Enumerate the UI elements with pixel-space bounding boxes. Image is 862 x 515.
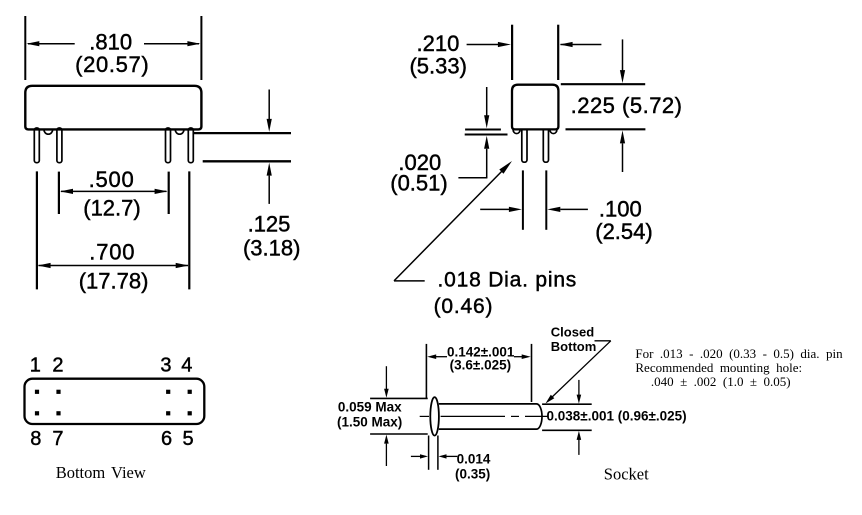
svg-text:3: 3 <box>160 355 171 377</box>
extension line below pin 3 (inner right) <box>168 172 170 214</box>
closed-bottom leader arrow <box>595 340 611 342</box>
svg-text:.040 ± .002 (1.0 ± 0.05): .040 ± .002 (1.0 ± 0.05) <box>651 374 791 389</box>
extension line below pin 2 (inner left) <box>58 172 60 214</box>
socket barrel bottom line <box>439 428 537 430</box>
svg-text:1: 1 <box>30 355 41 377</box>
extension line left of 0.014 <box>428 436 430 470</box>
svg-text:.100: .100 <box>599 197 642 222</box>
side view pin 4 <box>188 128 193 163</box>
end view pin left <box>522 128 527 162</box>
side view pin 1 <box>34 128 39 163</box>
svg-text:Socket: Socket <box>604 465 649 484</box>
dimension 0.059: upper arrow <box>385 366 387 390</box>
svg-text:.018 Dia. pins: .018 Dia. pins <box>438 269 578 292</box>
dimension .225: upper arrow <box>622 39 624 70</box>
extension line below right pin (.100) <box>545 170 547 229</box>
svg-text:2: 2 <box>52 355 63 377</box>
dimension 0.038: lower arrow <box>577 431 582 440</box>
svg-text:Recommended mounting hole:: Recommended mounting hole: <box>635 360 802 375</box>
extension line bottom of 0.038 <box>542 429 592 431</box>
dimension .700: line with outward arrows <box>39 265 189 267</box>
socket centerline <box>420 415 429 417</box>
svg-text:.225 (5.72): .225 (5.72) <box>571 93 683 118</box>
end view: extension line left of .210 <box>511 25 513 80</box>
standoff bump right (side view) <box>175 129 184 134</box>
standoff bump left (side view) <box>44 129 53 134</box>
svg-text:.810: .810 <box>89 30 132 55</box>
svg-text:0.059 Max: 0.059 Max <box>338 400 402 415</box>
seating plane line (lower) <box>203 160 291 162</box>
extension line below left pin (.100) <box>522 170 524 229</box>
side view pin 3 <box>166 128 171 163</box>
svg-text:0.014: 0.014 <box>457 452 491 467</box>
dimension .225: lower arrow <box>620 130 625 143</box>
dimension .125: lower arrow <box>267 163 272 176</box>
bottom view body outline <box>25 379 205 424</box>
extension line right of 0.014 <box>437 436 439 470</box>
socket barrel top line <box>439 403 537 405</box>
svg-text:(3.6±.025): (3.6±.025) <box>450 358 511 373</box>
dimension .020: leader line <box>458 177 487 179</box>
svg-text:5: 5 <box>182 428 193 450</box>
dimension .810: right arrow <box>144 43 199 45</box>
dimension 0.142: left arrow <box>427 354 436 359</box>
dimension 0.142: right arrow <box>514 356 522 358</box>
svg-text:(3.18): (3.18) <box>243 236 300 261</box>
dimension .020: upper arrow <box>486 87 488 116</box>
dimension .100: left arrow <box>480 208 509 210</box>
extension line top of 0.059 <box>370 397 428 399</box>
dimension .020: lower arrow <box>484 136 489 149</box>
extension line below pin 1 (outer left) <box>36 171 38 289</box>
end view pin right <box>543 128 548 162</box>
svg-text:(12.7): (12.7) <box>83 196 140 221</box>
svg-text:Bottom: Bottom <box>551 339 597 354</box>
svg-text:7: 7 <box>52 428 63 450</box>
side view pin 2 <box>57 128 62 163</box>
svg-text:6: 6 <box>161 428 172 450</box>
end view: extension line right of .210 <box>557 25 559 80</box>
dimension .100: right arrow <box>547 207 560 212</box>
svg-text:(5.33): (5.33) <box>409 54 466 79</box>
svg-text:For .013 - .020 (0.33 - 0.5) d: For .013 - .020 (0.33 - 0.5) dia. pin <box>635 346 843 361</box>
svg-text:.125: .125 <box>248 212 291 237</box>
extension line below pin 4 (outer right) <box>188 171 190 289</box>
svg-text:.500: .500 <box>89 167 135 192</box>
extension line bottom of .225 <box>566 128 646 130</box>
svg-text:(1.50 Max): (1.50 Max) <box>337 415 402 430</box>
svg-text:8: 8 <box>30 428 41 450</box>
svg-text:4: 4 <box>181 355 192 377</box>
side view: extension line left of .810 <box>24 16 26 80</box>
dimension .210: left arrow <box>467 44 498 46</box>
svg-text:0.038±.001 (0.96±.025): 0.038±.001 (0.96±.025) <box>547 409 687 424</box>
svg-text:Closed: Closed <box>551 325 594 340</box>
end view corner arc right <box>550 129 557 133</box>
extension line bottom of 0.059 <box>370 433 428 435</box>
svg-text:.700: .700 <box>89 240 135 265</box>
bottom view pin dots <box>35 390 39 394</box>
socket flange (ellipse) <box>430 397 439 435</box>
dimension .500: line with outward arrows <box>61 190 167 192</box>
extension line left of 0.142 <box>425 344 427 398</box>
extension line right of 0.142 <box>531 344 533 402</box>
socket closed end cap <box>537 404 543 429</box>
seating plane line (upper) <box>193 132 291 134</box>
pin thickness gauge line lower (.020) <box>465 134 508 136</box>
extension line top of 0.038 <box>542 403 592 405</box>
relay body (end view) <box>512 85 558 130</box>
svg-text:(0.35): (0.35) <box>455 467 490 482</box>
svg-text:(20.57): (20.57) <box>75 52 149 77</box>
dimension 0.014: right arrow <box>439 454 447 458</box>
dimension .810: left arrow <box>28 43 75 45</box>
dimension 0.014: left arrow <box>411 455 420 457</box>
side view: extension line right of .810 <box>200 16 202 80</box>
dimension 0.059: lower arrow <box>384 435 389 444</box>
svg-text:.210: .210 <box>416 31 459 56</box>
end view corner arc left <box>513 129 520 133</box>
svg-text:(0.51): (0.51) <box>390 171 447 196</box>
dimension .125: upper arrow <box>268 90 270 121</box>
svg-text:Bottom View: Bottom View <box>56 463 146 482</box>
pin thickness gauge line upper (.020) <box>465 129 501 131</box>
dimension 0.038: upper arrow <box>578 380 580 396</box>
svg-text:(2.54): (2.54) <box>595 219 652 244</box>
extension line top of .225 <box>561 83 645 85</box>
svg-text:(17.78): (17.78) <box>79 269 149 294</box>
leader line for .018 Dia. pins <box>394 280 425 282</box>
svg-text:(0.46): (0.46) <box>434 295 494 318</box>
relay body (side view) <box>25 86 201 130</box>
dimension .210: right arrow <box>561 44 602 46</box>
